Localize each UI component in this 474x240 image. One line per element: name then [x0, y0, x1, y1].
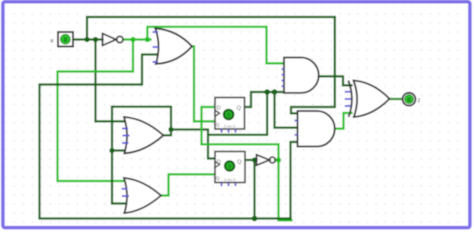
wire: NOT1 output bright to node (147.4,39.5)	[123, 38, 150, 40]
output pin z	[403, 93, 421, 106]
wire: node (95.5,39.5) down to OR2 pin1	[96, 40, 127, 122]
pin stubs OR3	[122, 189, 130, 196]
svg-text:Q: Q	[216, 122, 220, 127]
OR gate U3 (top)	[153, 28, 193, 64]
wire: node (274.5,92) down to AND2 pin3	[275, 92, 301, 128]
D flip-flop FF1	[215, 98, 245, 133]
pin stubs AND2	[295, 121, 298, 135]
wire: node (267.1,92) down to y=134.8 left under FF1	[210, 92, 267, 135]
AND gate U6 (top right)	[282, 58, 319, 93]
node (112,150.5)	[109, 148, 114, 153]
node (171,129.5)	[168, 127, 173, 132]
AND gate U7 (NAND lower right)	[295, 111, 335, 147]
svg-text:Q: Q	[237, 160, 242, 166]
junction nodes	[84, 37, 277, 221]
wire: node (254.5,160) down to bottom rail junction	[253, 160, 255, 219]
wire: OR2 output stub right and up to y=106.7 and left to x=112	[112, 107, 171, 136]
wire: bottom rail up x=290.5 to AND2 pin5	[291, 142, 301, 219]
svg-text:D: D	[217, 106, 221, 112]
wire: AND2 output bright up to XOR pin5	[335, 113, 352, 129]
node (95.5,39.5)	[93, 37, 98, 42]
svg-text:Q: Q	[237, 106, 242, 112]
NOT gate U2	[103, 34, 124, 46]
pin stubs OR2	[122, 129, 130, 144]
wire: node (133,39.5) down, left, down, to OR3 pin1	[58, 40, 134, 182]
node (87,39.5)	[84, 37, 89, 42]
pin stubs AND1	[282, 69, 285, 86]
svg-text:0 en 0: 0 en 0	[224, 177, 236, 182]
wire: OR1 pin4 feed from bottom rail: up x=39.5 left corner	[40, 55, 291, 219]
NOT gate U9 (after FF2)	[257, 155, 276, 166]
wire: OR2 pin5 from junction (112,150.5)	[112, 149, 127, 151]
pin stubs XOR	[345, 92, 352, 106]
wire: OR3 output bright up to FF2 clock	[161, 174, 215, 195]
svg-text:0: 0	[228, 165, 231, 171]
wire: OR1 output bright down to FF1 clock	[192, 46, 215, 121]
wire: T node (171,129.5) right to corner (208,129.5) down to FF2 D	[171, 130, 215, 159]
wire: AND1 output to XOR pin1	[319, 76, 351, 85]
OR gate U5 (bottom left)	[122, 178, 162, 213]
svg-text:0: 0	[227, 113, 230, 119]
wire: top rail down x=334.8 to y=107 then left to 291 then down to AND2 pin1	[291, 17, 335, 113]
XOR gate U8	[345, 81, 390, 118]
node (147.4,39.5)	[145, 37, 150, 42]
pin stubs OR1	[153, 32, 159, 62]
OR gate U4 (middle left)	[122, 117, 163, 153]
wire: FF2 Q to NOT2 input with junction down to bottom rail	[245, 159, 257, 161]
wire: node (278.5,160) up to y=145 left to x=201.5 up to FF1 D	[202, 107, 279, 160]
D flip-flop FF2	[215, 152, 245, 187]
wire: NOT2 output bright to node (278.5,160)	[275, 159, 278, 161]
input pin x	[51, 32, 74, 47]
FF2 south pin stubs	[222, 183, 236, 186]
wire: node (147.4,39.5) up to y=26.8 right to x=266.5 down to AND1 pin1	[147, 27, 286, 64]
wire: XOR output to z pin	[390, 98, 403, 100]
node (267.1,92)	[264, 89, 270, 95]
node (133,39.5)	[130, 37, 135, 42]
svg-text:0 en 0: 0 en 0	[224, 124, 236, 129]
node (278.5,160)	[276, 157, 281, 162]
svg-text:z: z	[418, 98, 421, 104]
FF1 south pin stubs	[222, 129, 236, 132]
wire: down x=112 with junction to OR2 pin5 and OR3 pin4	[112, 107, 127, 204]
wire: x pin to NOT1 input, dark, y=39.5	[73, 38, 103, 40]
svg-text:Q: Q	[216, 176, 220, 181]
node (254.5,218.5)	[252, 216, 258, 222]
wire: top rail from node (87,39.5) up and right to x=334.8	[87, 17, 335, 40]
node (274.5,92)	[272, 89, 278, 95]
node (254.5,160)	[252, 157, 257, 162]
svg-text:x: x	[51, 38, 54, 44]
wire: FF1 Q right up and along y=92 to AND1 pin6	[245, 92, 287, 107]
wire: NOT2 bright branch down to bottom-right corner (under dark rail)	[279, 160, 292, 220]
